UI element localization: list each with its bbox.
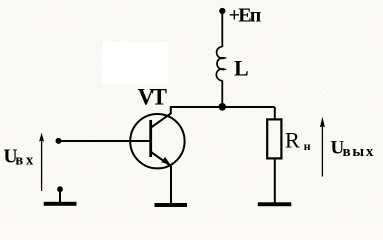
emitter lead bbox=[151, 152, 171, 166]
base bar bbox=[149, 120, 152, 157]
svg-text:R: R bbox=[285, 127, 300, 152]
transistor VT circle bbox=[130, 114, 184, 168]
svg-text:вх: вх bbox=[15, 153, 36, 169]
svg-text:VT: VT bbox=[138, 84, 167, 109]
supply terminal dot bbox=[219, 8, 225, 14]
stem lower dot to ground bbox=[59, 189, 61, 202]
wire rail to resistor bbox=[274, 107, 276, 120]
junction node bbox=[219, 103, 227, 111]
svg-text:вых: вых bbox=[343, 144, 376, 160]
svg-text:+Еп: +Еп bbox=[229, 5, 261, 27]
resistor Rн body bbox=[267, 119, 281, 158]
svg-text:н: н bbox=[304, 139, 311, 153]
input terminal dot bbox=[56, 138, 62, 144]
collector lead bbox=[151, 106, 171, 128]
ground (emitter) bbox=[155, 203, 188, 207]
base input wire bbox=[59, 140, 151, 142]
emitter arrow bbox=[161, 157, 170, 165]
wire inductor to junction bbox=[221, 80, 223, 107]
ground (resistor) bbox=[258, 202, 292, 206]
ground (input) bbox=[44, 202, 77, 206]
Uвых arrow bbox=[321, 125, 323, 177]
wire supply to inductor bbox=[221, 11, 223, 47]
inductor L bbox=[216, 47, 224, 81]
wire resistor to ground bbox=[274, 158, 276, 202]
input lower terminal dot bbox=[57, 186, 63, 192]
svg-text:L: L bbox=[234, 56, 249, 81]
white patch bbox=[102, 42, 168, 84]
emitter wire down bbox=[170, 166, 172, 203]
Uвх arrow bbox=[41, 136, 43, 191]
collector rail wire bbox=[171, 106, 275, 108]
